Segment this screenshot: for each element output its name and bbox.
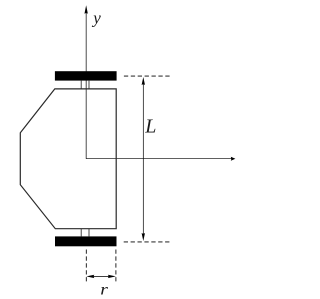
y-axis (85, 12, 87, 159)
axle top (80, 81, 82, 89)
dashed extension left (r) (85, 250, 87, 283)
x-axis (86, 158, 231, 160)
wheel top (55, 71, 117, 80)
y-axis arrowhead (84, 5, 87, 14)
wheel bottom (55, 236, 117, 246)
svg-text:L: L (144, 116, 156, 138)
x-axis arrowhead (231, 157, 236, 161)
axle bottom (80, 229, 82, 237)
dimension arrow r (93, 275, 110, 277)
dashed extension bottom (124, 241, 171, 243)
dimension line L (142, 84, 144, 235)
svg-text:y: y (91, 8, 101, 27)
dashed extension right (r) (115, 250, 117, 283)
svg-text:r: r (100, 282, 109, 299)
robot body (20, 89, 116, 229)
dashed extension top (124, 75, 171, 77)
